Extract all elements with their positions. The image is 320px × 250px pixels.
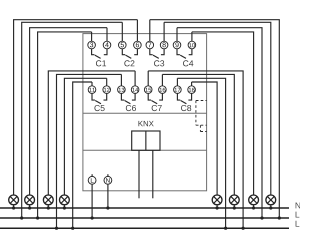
device internal divider upper <box>83 112 207 114</box>
wire terminal 18 to lamp E5 <box>192 82 218 195</box>
junction feed terminal 3 on L1 <box>36 216 39 219</box>
label C8 <box>181 105 191 111</box>
terminal 6 <box>134 41 142 49</box>
junction lamp E7 on N bus <box>252 206 255 209</box>
contact K8 <box>177 93 191 103</box>
contact K1 <box>92 49 107 59</box>
wire terminal 3 to L1 bus <box>38 32 92 218</box>
wire terminal 16 to lamp E6 <box>162 74 234 195</box>
wire lamp E2 to N bus <box>29 205 31 208</box>
junction feed terminal 13 on L2 <box>55 227 58 230</box>
terminal L stub <box>91 174 93 176</box>
terminal 15 <box>144 86 152 94</box>
label N bus <box>296 203 301 209</box>
device outline U1 <box>83 34 207 191</box>
junction feed terminal 17 on L2 <box>224 227 227 230</box>
wire terminal 9 to L1 bus <box>177 28 262 218</box>
terminal 5 <box>119 41 127 49</box>
terminal 11 <box>88 86 96 94</box>
label KNX <box>138 121 153 126</box>
label L2 bus <box>296 221 300 227</box>
terminal 3 <box>88 41 96 49</box>
KNX bus wire - <box>152 150 154 198</box>
terminal 13 <box>118 86 126 94</box>
lamp E8 <box>266 195 276 205</box>
lamp E4 <box>60 195 70 205</box>
wire terminal 15 to L2 bus <box>148 71 243 228</box>
contact K7 <box>148 93 162 103</box>
L1 bus line <box>0 217 289 219</box>
terminal 8 <box>160 41 168 49</box>
device internal divider lower <box>83 149 207 151</box>
dashed auxiliary module box <box>196 100 207 102</box>
wire lamp E5 to N bus <box>216 205 218 208</box>
lamp E5 <box>212 195 222 205</box>
contact K5 <box>92 93 107 103</box>
lamp E6 <box>229 195 239 205</box>
junction feed terminal 9 on L1 <box>260 216 263 219</box>
junction lamp E1 on N bus <box>12 206 15 209</box>
junction feed terminal 15 on L2 <box>242 227 245 230</box>
terminal 12 <box>103 86 111 94</box>
lamp E2 <box>25 195 35 205</box>
L2 bus line <box>0 227 289 229</box>
lamp E3 <box>43 195 53 205</box>
terminal N <box>104 176 112 184</box>
junction lamp E8 on N bus <box>269 206 272 209</box>
wire lamp E1 to N bus <box>13 205 15 208</box>
wire L terminal to L1 bus <box>91 184 93 218</box>
label C4 <box>183 60 193 66</box>
wire lamp E4 to N bus <box>63 205 65 208</box>
wire lamp E7 to N bus <box>253 205 255 208</box>
KNX bus connector block <box>132 131 160 150</box>
terminal L <box>88 176 96 184</box>
junction lamp E6 on N bus <box>233 206 236 209</box>
label C3 <box>154 60 164 66</box>
wire terminal 6 to lamp E1 <box>14 20 138 195</box>
label C6 <box>126 105 136 111</box>
terminal 18 <box>188 86 196 94</box>
lamp E1 <box>9 195 19 205</box>
wire terminal 10 to lamp E7 <box>192 32 254 195</box>
wire terminal 7 to L1 bus <box>150 20 279 218</box>
junction feed terminal 11 on L2 <box>71 227 74 230</box>
label C2 <box>124 60 134 66</box>
junction lamp E4 on N bus <box>63 206 66 209</box>
terminal 7 <box>146 41 154 49</box>
N bus line <box>0 207 289 209</box>
KNX bus wire + <box>138 150 140 198</box>
wire terminal 14 to lamp E3 <box>48 71 135 195</box>
wire terminal 4 to lamp E2 <box>30 28 107 195</box>
terminal 16 <box>159 86 167 94</box>
terminal N stub <box>107 174 109 176</box>
wire terminal 17 to L2 bus <box>177 78 225 228</box>
junction lamp E2 on N bus <box>28 206 31 209</box>
terminal 4 <box>103 41 111 49</box>
label C5 <box>94 105 104 111</box>
contact K6 <box>121 93 135 103</box>
label L1 bus <box>296 212 300 218</box>
wire lamp E8 to N bus <box>270 205 272 208</box>
junction N terminal on N bus <box>106 206 109 209</box>
junction lamp E5 on N bus <box>216 206 219 209</box>
terminal 10 <box>188 41 196 49</box>
terminal 14 <box>131 86 139 94</box>
contact K2 <box>122 49 137 59</box>
wire lamp E3 to N bus <box>47 205 49 208</box>
label C1 <box>96 60 106 66</box>
contact K4 <box>177 49 192 59</box>
wire terminal 13 to L2 bus <box>57 74 122 228</box>
wire terminal 8 to lamp E8 <box>164 22 271 195</box>
wire terminal 11 to L2 bus <box>73 82 92 228</box>
junction L terminal on L1 <box>91 216 94 219</box>
junction feed terminal 5 on L1 <box>20 216 23 219</box>
terminal 17 <box>174 86 182 94</box>
wire terminal 5 to L1 bus <box>22 22 123 218</box>
wire terminal 12 to lamp E4 <box>64 78 106 195</box>
lamp E7 <box>249 195 259 205</box>
wire N terminal to N bus <box>107 184 109 208</box>
terminal 9 <box>173 41 181 49</box>
junction feed terminal 7 on L1 <box>278 216 281 219</box>
wire lamp E6 to N bus <box>233 205 235 208</box>
junction lamp E3 on N bus <box>47 206 50 209</box>
label C7 <box>152 105 162 111</box>
contact K3 <box>150 49 164 59</box>
